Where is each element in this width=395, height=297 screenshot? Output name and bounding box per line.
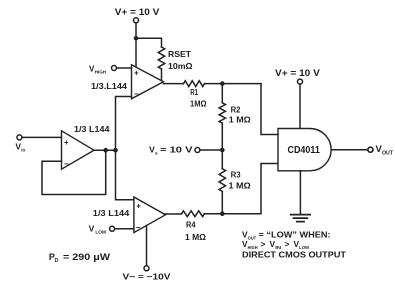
svg-text:1 MΩ: 1 MΩ [229,116,252,125]
svg-text:RSET: RSET [168,49,192,59]
svg-text:HIGH: HIGH [95,70,107,75]
terminal V+ right [298,79,303,84]
svg-text:+: + [136,202,141,211]
svg-text:R3: R3 [231,170,242,179]
resistor RSET [158,47,164,69]
op-amp U3 lower comparator [134,197,166,233]
terminal VLOW [110,226,115,231]
svg-text:+: + [134,69,139,78]
resistor R3 [219,169,225,192]
svg-text:1 MΩ: 1 MΩ [185,233,207,242]
svg-text:D: D [55,258,59,264]
svg-text:V+ = 10 V: V+ = 10 V [115,7,160,17]
wire node A to gate input 1 [261,84,278,135]
svg-text:−: − [136,223,141,232]
wire R3 to node B [221,191,223,213]
wire node B to gate input 2 [222,164,278,214]
terminal VOUT [368,147,373,152]
svg-text:>: > [261,239,266,249]
svg-text:+: + [64,138,69,147]
junction dot Vin node [113,148,118,153]
svg-text:R1: R1 [190,88,198,97]
terminal VHIGH [112,66,117,71]
terminal Vs [195,148,200,153]
junction dot node A [220,81,225,86]
svg-text:LOW: LOW [95,230,107,235]
wire U3 power pin to V- [146,226,148,266]
wire Vs terminal to node [200,149,222,151]
svg-text:−: − [134,89,139,98]
wire VHIGH to U1 plus input [117,67,132,69]
junction dot feedback tap [103,148,108,153]
wire U3 output [164,213,182,215]
svg-text:>: > [285,239,290,249]
wire U2 output to Vin node [94,149,116,151]
resistor R4 [182,211,205,217]
junction dot node B [220,211,225,216]
svg-text:s: s [155,151,158,156]
op-amp U1 upper comparator [132,65,164,99]
svg-text:1 MΩ: 1 MΩ [229,182,252,191]
svg-text:CD4011: CD4011 [288,144,320,156]
op-amp U2 buffer [62,131,95,169]
wire Vin node down to U3 plus input [116,150,134,200]
wire VLOW to U3 minus input [115,228,134,230]
svg-text:1/3.L144: 1/3.L144 [91,82,128,91]
terminal V- [144,266,149,271]
svg-text:10mΩ: 10mΩ [168,61,193,71]
wire RSET bottom to U1 output node [161,69,163,81]
ground [291,215,311,222]
wire Vin to buffer U2 [22,136,62,138]
svg-text:in: in [21,147,25,152]
wire R4 to node B [205,213,223,215]
wire R2 to Vs node [221,123,223,150]
svg-text:= 10 V: = 10 V [160,145,193,155]
wire V+ down to op-amp U1 power pin [135,23,137,69]
wire Vs node to R3 [221,150,223,169]
svg-text:V− = −10V: V− = −10V [123,272,172,282]
junction dot V+ node [134,36,139,41]
svg-text:OUT: OUT [248,235,257,240]
terminal V+ top-left [134,18,139,23]
svg-text:V+ = 10 V: V+ = 10 V [275,68,320,78]
wire U1 minus input to Vin node [116,97,132,151]
svg-text:−: − [64,159,69,168]
svg-text:OUT: OUT [382,150,393,156]
wire U1 output [164,83,184,85]
svg-text:V: V [89,223,95,233]
terminal Vin [17,135,22,140]
junction dot Vs node [220,148,225,153]
svg-text:DIRECT CMOS OUTPUT: DIRECT CMOS OUTPUT [242,249,346,259]
svg-text:1/3 L144: 1/3 L144 [74,125,110,134]
wire gate power pin to ground [299,171,301,214]
svg-text:= 290 μW: = 290 μW [63,252,111,262]
svg-text:1MΩ: 1MΩ [190,100,207,109]
gate CD4011 [278,129,331,171]
svg-text:R2: R2 [231,106,241,115]
wire R1 to node A [205,83,262,85]
svg-text:R4: R4 [186,220,196,229]
wire V+ node across to RSET top [136,38,162,47]
wire U2 feedback loop [42,150,106,194]
resistor R2 [219,103,225,123]
wire V+ right down to gate power pin [299,84,301,128]
svg-text:1/3 L144: 1/3 L144 [93,209,130,218]
wire node A down to R2 [221,84,223,103]
wire gate output [331,149,368,151]
resistor R1 [184,81,205,87]
